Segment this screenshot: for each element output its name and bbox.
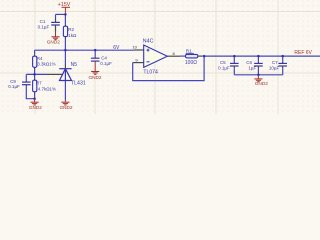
svg-text:0.1µF: 0.1µF [218, 66, 230, 71]
svg-text:C1: C1 [40, 19, 46, 24]
svg-text:C4: C4 [101, 56, 107, 61]
svg-text:C7: C7 [272, 60, 278, 65]
svg-text:0.1µF: 0.1µF [38, 25, 50, 30]
svg-text:3.3kΩ1%: 3.3kΩ1% [37, 61, 55, 66]
svg-text:GND2: GND2 [59, 105, 72, 110]
svg-text:0.1µF: 0.1µF [100, 61, 112, 66]
svg-text:10µF: 10µF [269, 65, 280, 70]
svg-text:R4: R4 [37, 56, 43, 61]
svg-text:GND2: GND2 [47, 39, 60, 44]
svg-text:1µF: 1µF [248, 66, 256, 71]
svg-text:R2: R2 [68, 27, 74, 32]
svg-text:10: 10 [132, 45, 137, 50]
svg-text:0.1µF: 0.1µF [8, 84, 20, 89]
svg-text:+15V: +15V [58, 2, 71, 8]
svg-text:100Ω: 100Ω [185, 60, 197, 66]
svg-text:C5: C5 [220, 60, 226, 65]
svg-text:REF 6V: REF 6V [294, 50, 312, 56]
svg-text:N4C: N4C [143, 38, 154, 44]
svg-text:C6: C6 [246, 60, 252, 65]
svg-text:6V: 6V [113, 45, 120, 51]
svg-text:TL431: TL431 [71, 81, 86, 87]
svg-text:N5: N5 [71, 62, 78, 68]
svg-text:GND2: GND2 [29, 105, 42, 110]
svg-text:R1: R1 [186, 49, 192, 54]
svg-text:TL074: TL074 [143, 70, 158, 76]
svg-text:GND2: GND2 [255, 81, 268, 86]
svg-text:1kΩ: 1kΩ [68, 33, 77, 38]
svg-text:GND2: GND2 [88, 75, 101, 80]
svg-text:4.7kΩ1%: 4.7kΩ1% [38, 86, 56, 91]
svg-text:R7: R7 [36, 81, 42, 86]
